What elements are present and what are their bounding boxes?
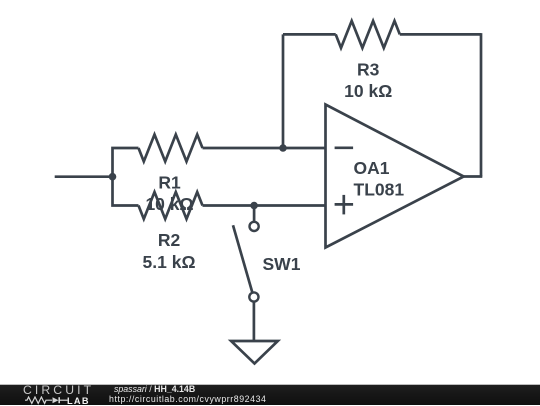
footer bar <box>0 384 540 405</box>
node: switch junction <box>250 202 258 210</box>
CircuitLab logo wordmark CIRCUIT <box>23 383 94 397</box>
svg-text:R2: R2 <box>158 230 181 250</box>
op-amp non-inverting input marker <box>335 195 354 215</box>
svg-text:SW1: SW1 <box>263 254 301 274</box>
resistor R3 <box>336 21 400 48</box>
credit line: author / title <box>114 384 195 394</box>
svg-text:OA1: OA1 <box>354 158 390 178</box>
svg-text:TL081: TL081 <box>354 180 405 200</box>
wire: feedback top right segment <box>400 33 481 36</box>
CircuitLab logo wordmark LAB <box>67 396 90 406</box>
resistor R1 <box>139 135 203 162</box>
wire: R1 to inverting input <box>203 147 326 150</box>
svg-text:R1: R1 <box>158 172 181 192</box>
svg-text:10 kΩ: 10 kΩ <box>344 81 392 101</box>
node: input junction <box>109 173 117 181</box>
op-amp inverting input marker <box>335 146 354 149</box>
ground <box>231 341 278 364</box>
credit line: url <box>109 394 266 404</box>
op-amp OA1 triangle <box>326 105 464 248</box>
wire: junction down to R2 <box>113 177 139 206</box>
wire: feedback top left segment <box>283 33 336 36</box>
resistor R2 <box>139 192 203 219</box>
svg-text:5.1 kΩ: 5.1 kΩ <box>143 252 196 272</box>
wire: input lead <box>55 175 113 178</box>
node: feedback junction <box>279 144 287 152</box>
wire: junction up to R1 <box>113 148 139 177</box>
CircuitLab logo resistor + diode glyph <box>25 396 68 405</box>
wire: feedback left vertical <box>282 34 285 148</box>
svg-text:10 kΩ: 10 kΩ <box>145 194 193 214</box>
switch SW1 <box>233 206 259 342</box>
wire: feedback right vertical <box>480 33 483 176</box>
wire: output lead <box>464 175 483 178</box>
svg-text:R3: R3 <box>357 59 380 79</box>
wire: R2 to non-inverting input <box>203 204 326 207</box>
